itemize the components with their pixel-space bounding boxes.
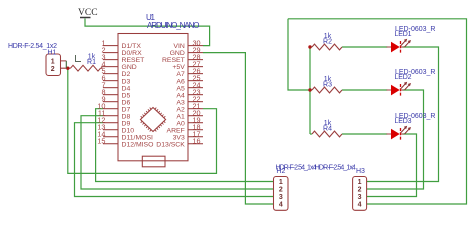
svg-text:A4: A4 bbox=[176, 92, 185, 99]
svg-text:2: 2 bbox=[279, 187, 283, 194]
svg-text:D9: D9 bbox=[122, 120, 131, 127]
svg-text:1: 1 bbox=[279, 179, 283, 186]
svg-text:2: 2 bbox=[51, 66, 55, 73]
svg-text:LED1: LED1 bbox=[395, 31, 412, 38]
svg-text:GND: GND bbox=[170, 50, 185, 57]
svg-text:A0: A0 bbox=[176, 120, 185, 127]
svg-text:A3: A3 bbox=[176, 99, 185, 106]
svg-text:HDR-F-2.54_1x4: HDR-F-2.54_1x4 bbox=[315, 165, 356, 172]
svg-text:3: 3 bbox=[279, 194, 283, 201]
svg-text:D7: D7 bbox=[122, 106, 131, 113]
svg-text:4: 4 bbox=[279, 202, 283, 209]
svg-text:D4: D4 bbox=[122, 85, 131, 92]
svg-text:LED2: LED2 bbox=[395, 74, 412, 81]
svg-text:A6: A6 bbox=[176, 78, 185, 85]
svg-text:R2: R2 bbox=[323, 38, 332, 45]
svg-text:D1/TX: D1/TX bbox=[122, 43, 142, 50]
svg-text:D6: D6 bbox=[122, 99, 131, 106]
svg-text:R4: R4 bbox=[323, 125, 332, 132]
svg-text:A5: A5 bbox=[176, 85, 185, 92]
svg-text:+5V: +5V bbox=[172, 64, 185, 71]
svg-text:VIN: VIN bbox=[173, 43, 184, 50]
svg-text:D2: D2 bbox=[122, 71, 131, 78]
svg-text:GND: GND bbox=[122, 64, 137, 71]
svg-text:RESET: RESET bbox=[122, 57, 146, 64]
svg-text:A2: A2 bbox=[176, 106, 185, 113]
svg-text:RESET: RESET bbox=[162, 57, 186, 64]
svg-text:D8: D8 bbox=[122, 113, 131, 120]
svg-text:16: 16 bbox=[193, 137, 201, 146]
svg-text:D10: D10 bbox=[122, 127, 135, 134]
svg-text:4: 4 bbox=[358, 202, 362, 209]
svg-text:D5: D5 bbox=[122, 92, 131, 99]
svg-text:1: 1 bbox=[358, 179, 362, 186]
svg-text:VCC: VCC bbox=[78, 8, 98, 18]
svg-text:D3: D3 bbox=[122, 78, 131, 85]
svg-text:LED3: LED3 bbox=[395, 118, 412, 125]
svg-text:AREF: AREF bbox=[167, 127, 185, 134]
svg-text:A1: A1 bbox=[176, 113, 185, 120]
svg-text:2: 2 bbox=[358, 187, 362, 194]
svg-text:ARDUINO_NANO: ARDUINO_NANO bbox=[147, 21, 200, 30]
svg-text:A7: A7 bbox=[176, 71, 185, 78]
svg-text:3V3: 3V3 bbox=[173, 134, 185, 141]
svg-text:D0/RX: D0/RX bbox=[122, 50, 143, 57]
svg-text:D11/MOSI: D11/MOSI bbox=[122, 134, 154, 141]
svg-text:1: 1 bbox=[51, 58, 55, 65]
svg-text:H1: H1 bbox=[48, 50, 57, 57]
svg-text:R3: R3 bbox=[323, 81, 332, 88]
svg-text:3: 3 bbox=[358, 194, 362, 201]
svg-text:15: 15 bbox=[97, 137, 105, 146]
svg-text:D12/MISO: D12/MISO bbox=[122, 141, 154, 148]
svg-text:R1: R1 bbox=[87, 59, 96, 66]
svg-text:H3: H3 bbox=[356, 168, 365, 175]
svg-text:D13/SCK: D13/SCK bbox=[156, 141, 185, 148]
svg-text:H2: H2 bbox=[276, 168, 285, 175]
